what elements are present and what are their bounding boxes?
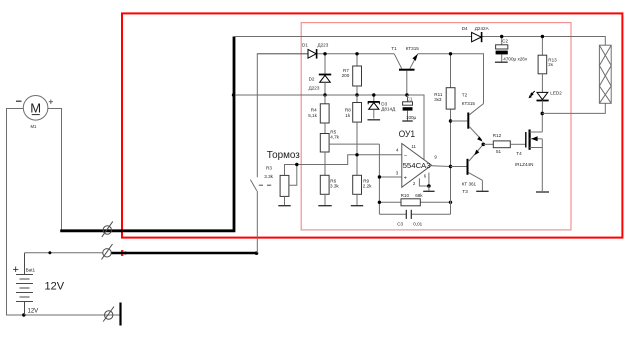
svg-text:0,01: 0,01 [413, 221, 422, 226]
resistor R8 [345, 95, 362, 122]
trimmer R3 [285, 155, 402, 176]
resistor R4 [308, 95, 329, 123]
thick wire motor to controller [60, 37, 234, 231]
svg-text:M1: M1 [31, 124, 37, 129]
svg-text:T4: T4 [516, 151, 522, 156]
svg-text:R9: R9 [363, 178, 369, 183]
motor minus sign [16, 100, 22, 102]
svg-text:51: 51 [496, 149, 502, 154]
svg-text:3.3k: 3.3k [264, 174, 273, 179]
svg-text:C3: C3 [397, 221, 403, 226]
node LED bottom / drain [541, 112, 545, 116]
node T1 base rail y95 [405, 93, 408, 96]
wire battery plus rail thin part [25, 252, 104, 254]
resistor R10 feedback [378, 193, 453, 206]
svg-text:LED2: LED2 [550, 91, 562, 96]
main output column x450 [450, 54, 452, 88]
outer red selection rectangle [122, 13, 622, 237]
trimmer R5 [320, 123, 379, 152]
wire mid rail y54 left part [257, 54, 394, 177]
svg-text:R8: R8 [345, 107, 351, 112]
node battery minus [22, 313, 25, 316]
svg-text:+: + [48, 97, 53, 107]
svg-text:R6: R6 [330, 178, 336, 183]
node emitter junction [482, 143, 486, 147]
svg-text:T2: T2 [462, 93, 468, 98]
svg-text:D2: D2 [309, 77, 315, 82]
zener D3 [368, 93, 397, 120]
node rail y95 at thick line [232, 93, 235, 96]
resistor R11 [434, 88, 455, 109]
wire motor right stub [48, 109, 62, 231]
svg-text:C1: C1 [407, 97, 413, 102]
svg-text:12V: 12V [28, 309, 39, 315]
test point circle on battery rail [102, 244, 113, 260]
switch Тормоз blade [250, 180, 256, 191]
svg-text:68k: 68k [415, 193, 423, 198]
svg-text:12V: 12V [45, 280, 65, 292]
svg-text:T3: T3 [462, 189, 468, 194]
svg-text:4,7k: 4,7k [330, 134, 339, 139]
LED2 [529, 74, 563, 114]
svg-text:D4: D4 [462, 26, 468, 31]
svg-text:Тормоз: Тормоз [267, 150, 300, 161]
wire opamp output [432, 165, 451, 168]
diode D2 [309, 52, 332, 97]
resistor R9 [351, 122, 372, 206]
svg-text:Д242А: Д242А [475, 26, 490, 31]
switch linkage dashes [259, 184, 271, 186]
transistor T1 [391, 46, 419, 95]
resistor R7 [342, 52, 362, 97]
svg-text:R10: R10 [401, 193, 410, 198]
test point circle on bottom rail [103, 307, 114, 322]
svg-text:100µ: 100µ [406, 115, 417, 120]
diode D1 [257, 42, 328, 58]
MOSFET T4 IRLZ44N [515, 113, 549, 192]
resistor R12 [483, 133, 526, 154]
diode D4 [462, 26, 490, 42]
svg-text:3.3k: 3.3k [330, 184, 339, 189]
battery Bat1 [16, 253, 33, 315]
chassis terminal bar [119, 303, 121, 326]
wire opamp bottom pins and ground [419, 173, 434, 192]
resistor R13 [538, 35, 557, 74]
svg-text:M: M [30, 101, 41, 116]
wire pin3 input [379, 176, 401, 178]
wire R5 wiper down to pin3 [378, 144, 380, 214]
wire motor left stub [7, 109, 24, 316]
wire switch bottom [256, 191, 258, 253]
resistor R6 [318, 152, 339, 206]
svg-text:Д814Д: Д814Д [381, 107, 396, 112]
svg-text:5,1k: 5,1k [308, 113, 317, 118]
svg-text:200: 200 [342, 73, 350, 78]
svg-text:ОУ1: ОУ1 [399, 129, 416, 139]
capacitor C2 4700u [495, 35, 528, 62]
test point circle on thick wire [102, 221, 113, 237]
svg-text:+: + [404, 175, 407, 181]
svg-text:Д223: Д223 [309, 85, 320, 90]
svg-text:3к3: 3к3 [434, 97, 442, 102]
transistor T3 [451, 144, 489, 194]
capacitor C3 feedback [379, 210, 450, 227]
svg-text:11: 11 [411, 144, 416, 149]
svg-text:Bat1: Bat1 [26, 267, 36, 272]
op-amp U1 554СА3 [396, 129, 438, 188]
red tick on battery wire [121, 250, 123, 256]
svg-text:4700µ x26v: 4700µ x26v [503, 56, 528, 61]
transistor T2 [451, 93, 484, 142]
svg-text:1k: 1k [345, 113, 351, 118]
svg-text:C2: C2 [502, 38, 508, 43]
svg-text:D1: D1 [302, 42, 308, 47]
inner red selection rectangle [301, 23, 571, 230]
svg-text:IRLZ44N: IRLZ44N [515, 162, 533, 167]
wire opamp supply rail y95 [234, 95, 424, 160]
svg-text:2,2k: 2,2k [363, 184, 372, 189]
svg-text:КТ315: КТ315 [462, 101, 476, 106]
svg-text:R12: R12 [493, 133, 502, 138]
svg-text:554СА3: 554СА3 [403, 161, 431, 170]
node pin4 row R8 column [355, 153, 358, 156]
node on battery thick rail [124, 252, 127, 255]
wire top supply rail to lamp [234, 37, 605, 46]
svg-text:КТ 361: КТ 361 [462, 182, 477, 187]
node switch bottom [255, 251, 259, 255]
wire bottom negative rail [6, 314, 121, 316]
svg-text:+: + [13, 264, 19, 276]
svg-text:Д223: Д223 [318, 42, 329, 47]
lamp load symbol [599, 45, 611, 103]
wire lamp bottom [542, 103, 605, 113]
thick wire battery plus rail [112, 252, 258, 255]
svg-text:T1: T1 [391, 46, 397, 51]
motor M1 circle [23, 96, 48, 121]
svg-text:КТ315: КТ315 [406, 46, 420, 51]
svg-text:R3: R3 [266, 166, 272, 171]
capacitor C1 [402, 95, 416, 121]
node on battery rail [48, 251, 51, 254]
wire mid rail y54 right part [418, 54, 484, 104]
